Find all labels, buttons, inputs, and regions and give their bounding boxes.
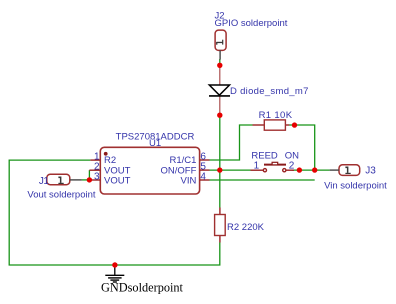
connector J2	[215, 30, 226, 59]
svg-text:4: 4	[200, 171, 206, 182]
wire: pin6 to R1 left	[210, 125, 253, 160]
diode D body	[209, 85, 230, 96]
op IC U1 box	[100, 147, 199, 194]
pin 6 stub	[200, 159, 210, 161]
wire: reed to J3	[292, 169, 330, 171]
svg-text:Vout solderpoint: Vout solderpoint	[27, 190, 95, 201]
svg-text:U1: U1	[149, 138, 161, 149]
junction below diode	[217, 113, 222, 118]
pin 1 stub	[90, 159, 100, 161]
connector J1	[47, 174, 82, 185]
svg-text:J3: J3	[365, 166, 376, 177]
wire: center vertical diode to R2	[219, 114, 221, 208]
svg-text:Vin solderpoint: Vin solderpoint	[324, 181, 387, 192]
wire: R1 right to right vertical	[289, 125, 315, 170]
junction above diode	[217, 63, 222, 68]
wire: pin5 row to reed	[210, 169, 251, 171]
junction right of reed	[297, 167, 302, 172]
resistor R1	[253, 120, 290, 130]
svg-text:J1: J1	[39, 176, 50, 187]
svg-text:VIN: VIN	[181, 176, 197, 187]
diode D pins	[219, 66, 221, 86]
junction pin5 row center	[217, 167, 222, 172]
wire: J2 pin to junction	[219, 59, 221, 66]
svg-text:GPIO solderpoint: GPIO solderpoint	[215, 18, 288, 29]
junction right of R1	[292, 122, 297, 127]
svg-text:2: 2	[289, 161, 295, 172]
pin 2 stub	[89, 169, 100, 171]
pin 4 stub	[200, 179, 210, 181]
svg-text:R2 220K: R2 220K	[227, 222, 265, 233]
connector J3	[330, 165, 360, 176]
junction right vertical reed row	[312, 167, 317, 172]
wire: left loop pin1 to bottom	[9, 160, 220, 265]
junction GND tap	[112, 262, 117, 267]
pin 5 stub	[200, 169, 210, 171]
ground symbol	[105, 265, 124, 282]
svg-text:D diode_smd_m7: D diode_smd_m7	[230, 86, 309, 97]
svg-text:1: 1	[254, 161, 260, 172]
pin 3 stub	[90, 179, 100, 181]
svg-text:GNDsolderpoint: GNDsolderpoint	[101, 281, 184, 295]
wire: pin4 row	[210, 179, 315, 181]
reed switch S1	[251, 162, 295, 171]
svg-text:R1 10K: R1 10K	[259, 110, 293, 121]
wire: J1 to pin3 junction	[82, 179, 91, 181]
wire: pin2 drop to J1 junction	[88, 170, 90, 180]
svg-text:VOUT: VOUT	[104, 176, 131, 187]
svg-text:3: 3	[94, 171, 100, 182]
junction J1 pin3	[87, 177, 92, 182]
resistor R2	[215, 208, 226, 243]
